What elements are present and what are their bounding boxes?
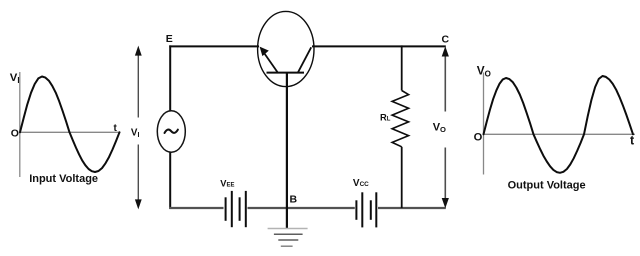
battery VCC plate 1 short <box>355 200 357 220</box>
svg-text:VEE: VEE <box>220 178 234 188</box>
output graph horizontal axis <box>484 133 636 135</box>
resistor RL bottom lead <box>401 147 403 208</box>
wire top-left (E to transistor emitter) <box>169 45 259 47</box>
battery VCC plate 2 long <box>361 192 363 227</box>
base wire (transistor to ground through bottom wire) <box>286 73 288 229</box>
svg-text:RL: RL <box>380 111 391 122</box>
svg-text:E: E <box>166 33 173 45</box>
output graph vertical axis <box>483 73 485 175</box>
VI arrowhead top <box>135 46 142 56</box>
svg-text:B: B <box>290 194 298 206</box>
VO measurement arrow shaft upper <box>444 52 446 112</box>
VI measurement arrow shaft lower <box>137 145 139 205</box>
ground line 3 <box>278 239 298 241</box>
input graph vertical axis <box>19 72 21 177</box>
svg-text:VCC: VCC <box>353 178 369 189</box>
VO measurement arrow shaft lower <box>444 148 446 204</box>
svg-text:VO: VO <box>477 63 491 78</box>
battery VCC plate 3 short <box>370 200 372 220</box>
AC source V1 ellipse <box>157 111 185 152</box>
transistor emitter line <box>262 50 278 73</box>
svg-text:O: O <box>474 132 483 144</box>
resistor RL zigzag <box>392 91 409 147</box>
bottom wire segment 3 (VCC to right corner) <box>378 207 446 209</box>
VI measurement arrow shaft upper <box>137 51 139 118</box>
svg-text:VI: VI <box>10 72 20 85</box>
transistor collector line <box>298 47 311 72</box>
ground line 2 <box>274 233 303 235</box>
VO arrowhead top <box>442 46 449 56</box>
input sine curve <box>20 77 120 173</box>
wire top-right (transistor collector to C) <box>312 45 446 47</box>
battery VEE plate 2 long <box>231 191 233 227</box>
svg-text:C: C <box>442 33 450 45</box>
battery VEE plate 3 short <box>239 197 241 221</box>
transistor base bar <box>267 72 305 74</box>
wire left lower (AC source down to bottom wire) <box>169 152 171 209</box>
VI arrowhead bottom <box>135 199 142 209</box>
transistor Q1 ellipse <box>258 11 314 86</box>
transistor emitter arrowhead <box>260 47 269 57</box>
svg-text:t: t <box>630 133 635 147</box>
svg-text:VO: VO <box>433 122 446 134</box>
resistor RL top lead <box>401 45 403 90</box>
wire left upper (E down to AC source) <box>169 45 171 111</box>
ground line 1 <box>268 228 308 230</box>
svg-text:VI: VI <box>131 128 140 140</box>
svg-text:Input Voltage: Input Voltage <box>29 173 98 185</box>
output sine curve <box>484 76 634 173</box>
ground line 4 <box>281 245 293 247</box>
battery VEE plate 4 long <box>245 191 247 227</box>
svg-text:Output Voltage: Output Voltage <box>508 179 586 191</box>
battery VEE plate 1 short <box>225 197 227 221</box>
battery VCC plate 4 long <box>375 192 377 227</box>
AC source tilde <box>165 130 178 133</box>
bottom wire segment 2 (VEE to VCC) <box>248 207 355 209</box>
bottom wire segment 1 (left corner to VEE) <box>169 207 223 209</box>
input graph horizontal axis <box>20 131 119 133</box>
VO arrowhead bottom <box>442 198 449 208</box>
svg-text:O: O <box>11 128 19 140</box>
